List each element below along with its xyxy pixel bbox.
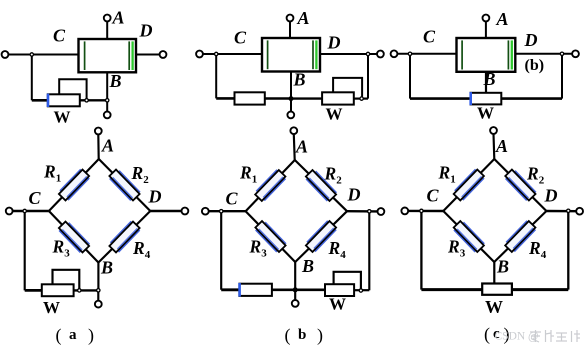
svg-text:A: A: [297, 8, 310, 28]
svg-text:W: W: [477, 104, 494, 123]
svg-text:B: B: [301, 256, 314, 276]
svg-text:(: (: [56, 325, 62, 346]
svg-text:B: B: [293, 70, 306, 90]
svg-text:C: C: [29, 188, 42, 208]
svg-text:D: D: [139, 21, 153, 41]
svg-text:A: A: [101, 136, 114, 156]
svg-text:W: W: [485, 297, 503, 317]
svg-text:): ): [88, 325, 94, 346]
svg-text:(: (: [285, 325, 291, 346]
svg-text:D: D: [148, 187, 162, 207]
svg-text:W: W: [326, 105, 343, 124]
svg-text:C: C: [234, 28, 247, 48]
svg-text:B: B: [100, 258, 113, 278]
svg-text:D: D: [347, 185, 361, 205]
svg-text:D: D: [544, 186, 558, 206]
svg-text:A: A: [112, 8, 125, 28]
svg-text:b: b: [298, 327, 306, 343]
svg-text:a: a: [69, 327, 77, 343]
svg-text:W: W: [54, 108, 71, 127]
svg-text:A: A: [496, 9, 509, 29]
svg-text:): ): [317, 325, 323, 346]
svg-text:(: (: [484, 324, 490, 345]
svg-text:C: C: [427, 186, 440, 206]
svg-text:B: B: [483, 69, 496, 89]
svg-text:D: D: [524, 30, 538, 50]
svg-text:C: C: [423, 27, 436, 47]
svg-text:C: C: [226, 189, 239, 209]
svg-text:D: D: [327, 33, 341, 53]
svg-text:B: B: [109, 71, 122, 91]
svg-text:A: A: [295, 137, 308, 157]
svg-text:A: A: [495, 136, 508, 156]
svg-text:W: W: [43, 298, 60, 317]
svg-text:B: B: [496, 257, 509, 277]
svg-text:W: W: [329, 295, 346, 314]
svg-text:C: C: [53, 26, 66, 46]
svg-text:(b): (b): [525, 57, 545, 74]
